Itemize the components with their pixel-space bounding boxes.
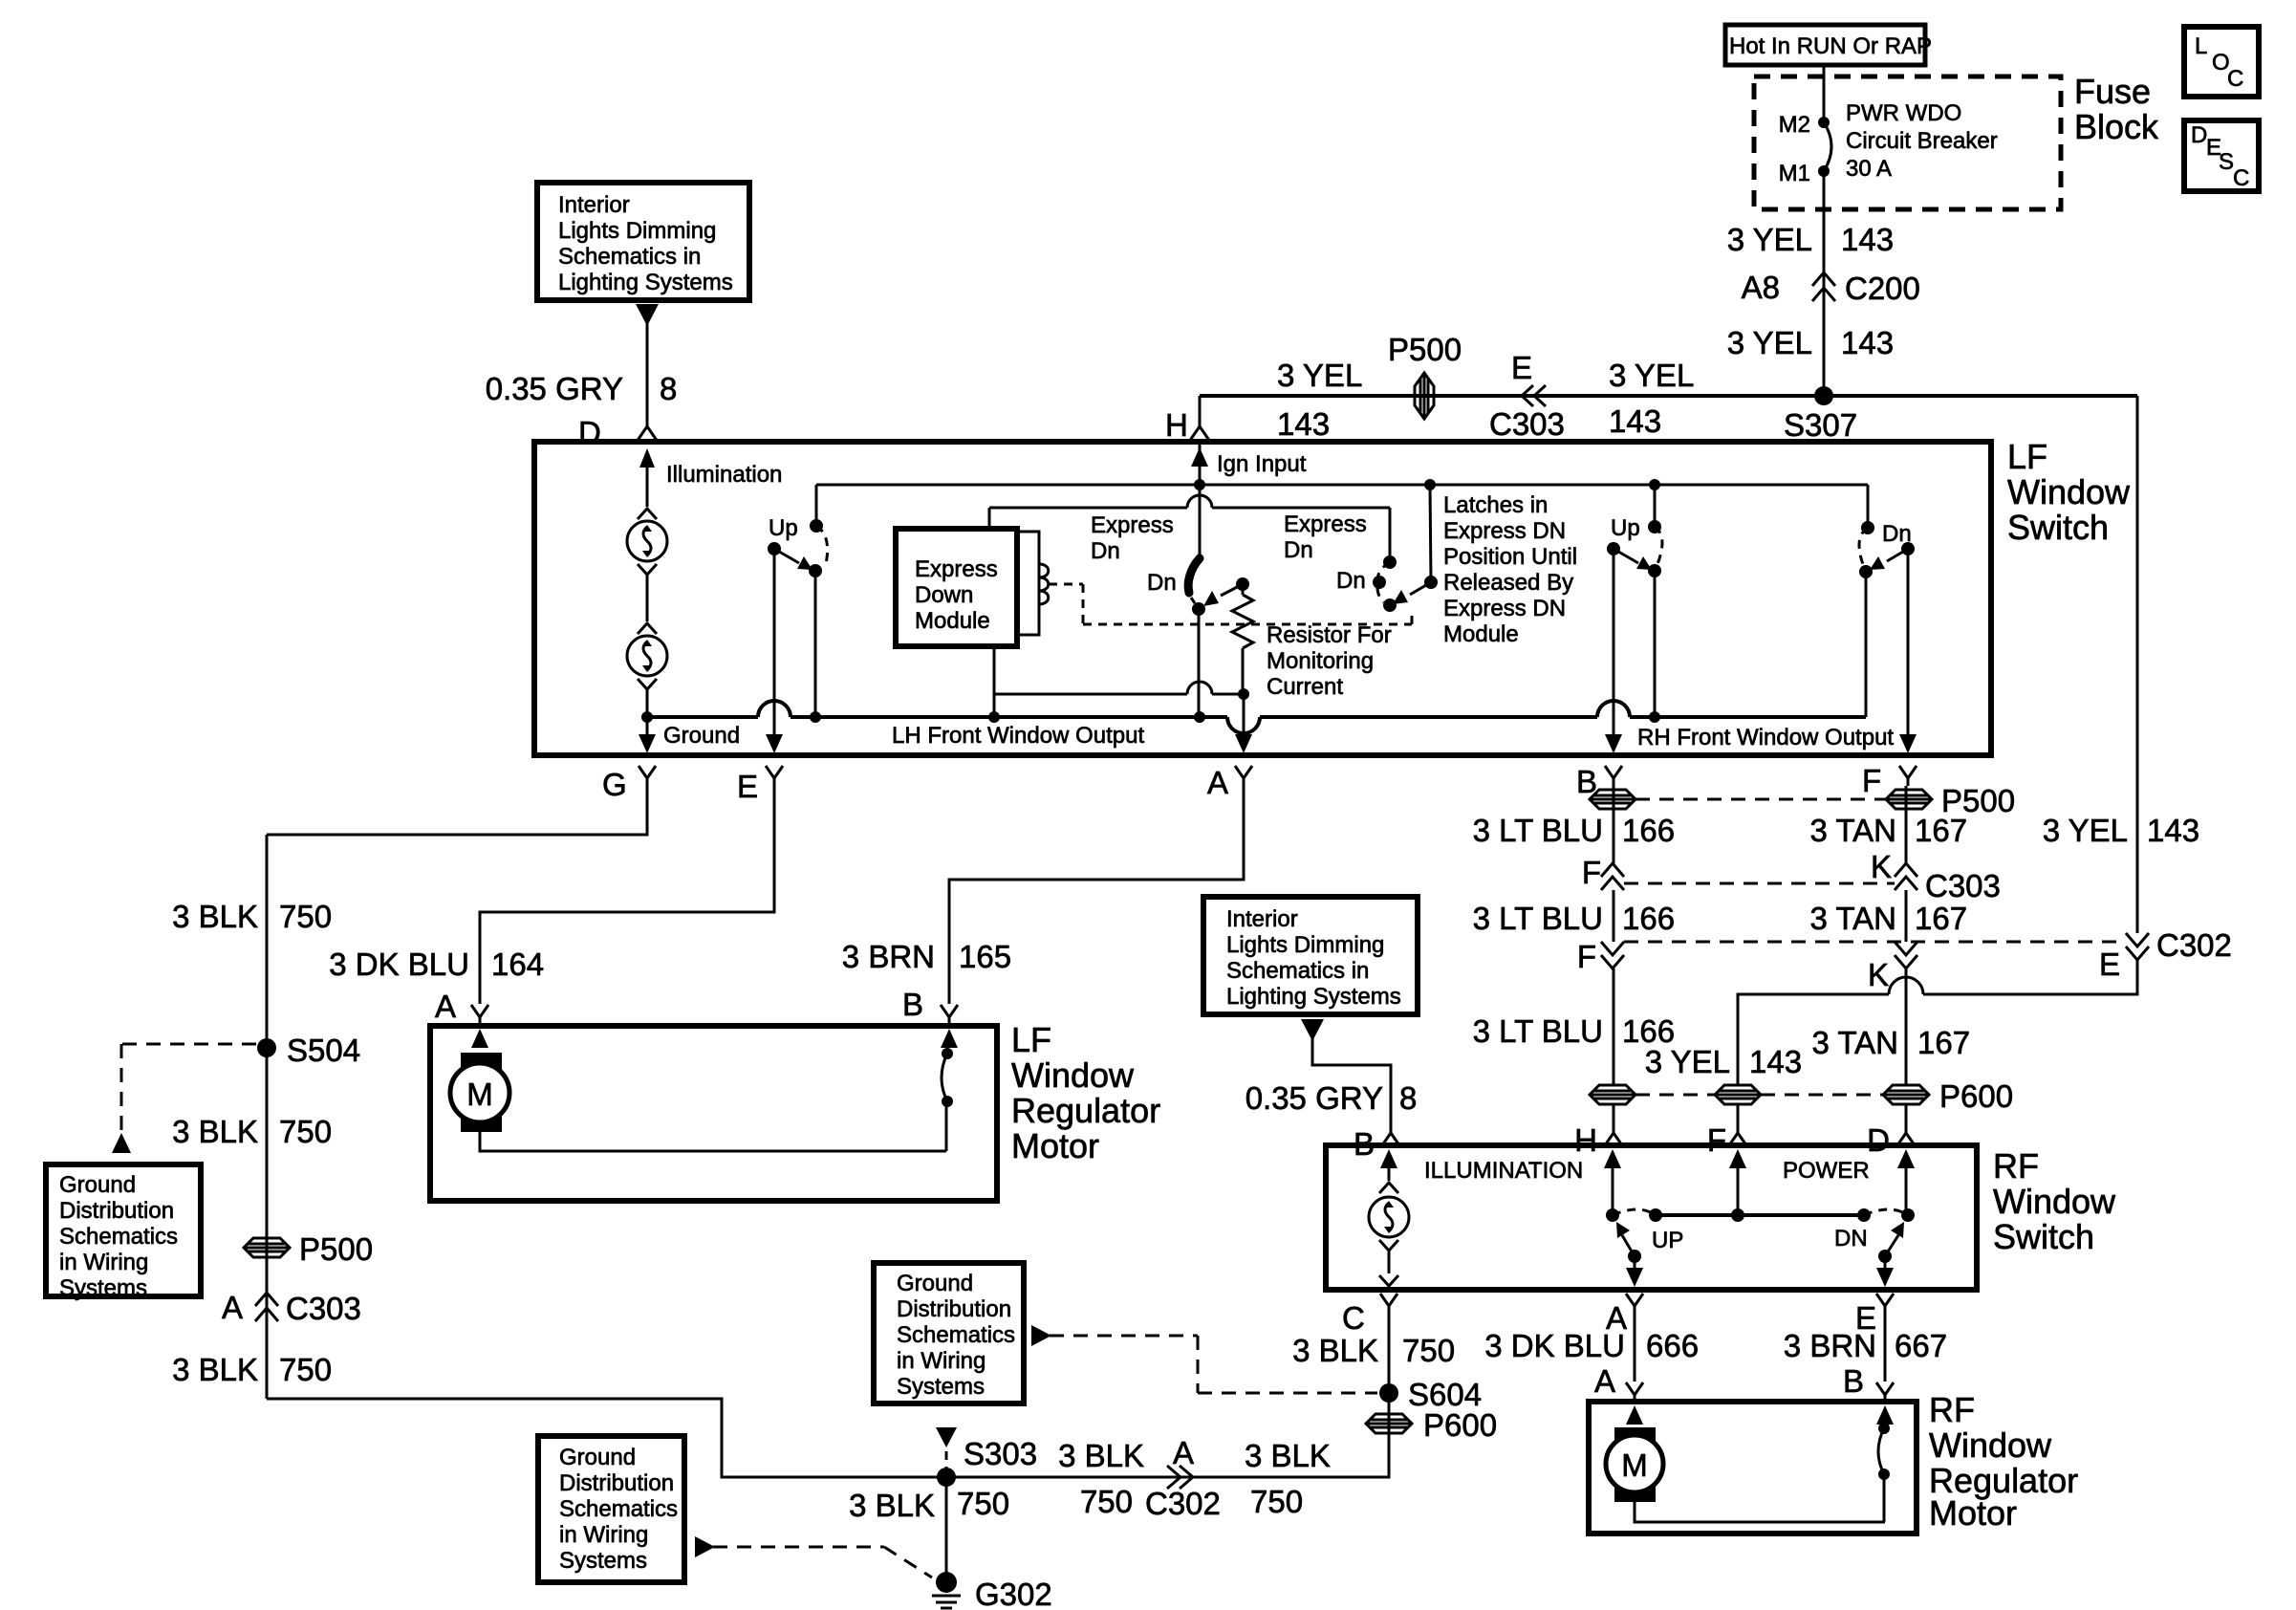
- dashed connector plane P500 row: [1635, 798, 1886, 801]
- svg-text:667: 667: [1895, 1328, 1947, 1363]
- module side tab: [1017, 532, 1039, 635]
- svg-text:143: 143: [1277, 406, 1330, 442]
- right express Dn switch: [1284, 485, 1438, 612]
- RF window switch box: [1326, 1145, 2116, 1290]
- wire: right 3 YEL 143 drop from S307 line: [2136, 396, 2139, 933]
- svg-text:3 BLK: 3 BLK: [1058, 1438, 1144, 1473]
- dashed express-down control line: [1049, 584, 1412, 624]
- svg-text:P600: P600: [1423, 1407, 1497, 1443]
- wire: C exit down to S604 (3 BLK 750): [1388, 1314, 1391, 1473]
- F (power) input arrow of RF switch: [1729, 1149, 1746, 1215]
- svg-text:F: F: [1577, 939, 1596, 974]
- svg-text:143: 143: [1841, 325, 1894, 360]
- svg-text:Hot In RUN Or RAP: Hot In RUN Or RAP: [1729, 33, 1932, 59]
- inline connector P500 (on feed wire): [1388, 332, 1462, 419]
- splice S307: [1784, 386, 1857, 443]
- illumination lamp 1: [627, 509, 667, 621]
- wire: breaker M1 down to S307: [1823, 171, 1826, 396]
- label box "Ground Distribution Schematics in Wiring Systems" (bottom left): [538, 1436, 684, 1582]
- label box "Ground Distribution Schematics in Wiring Systems" (left): [46, 1164, 201, 1301]
- svg-text:Window: Window: [1993, 1182, 2116, 1221]
- svg-text:Switch: Switch: [2007, 508, 2109, 547]
- svg-text:3 DK BLU: 3 DK BLU: [329, 946, 469, 982]
- svg-text:Express: Express: [1091, 512, 1174, 538]
- svg-text:A: A: [1173, 1435, 1194, 1470]
- wire: express switch Dn contact down to output bus: [1194, 609, 1205, 723]
- svg-text:Monitoring: Monitoring: [1267, 648, 1374, 674]
- svg-text:Latches in: Latches in: [1443, 492, 1548, 518]
- wire: P600 down/left to C302 and S303: [946, 1433, 1389, 1477]
- svg-text:Dn: Dn: [1091, 538, 1120, 564]
- svg-text:E: E: [737, 769, 758, 804]
- svg-text:K: K: [1868, 957, 1889, 992]
- dashed reference from S504 to ground distribution box: [112, 1044, 256, 1153]
- svg-text:Block: Block: [2074, 107, 2159, 146]
- svg-text:Resistor For: Resistor For: [1267, 622, 1392, 648]
- svg-text:3 YEL: 3 YEL: [1727, 325, 1812, 360]
- svg-text:167: 167: [1915, 813, 1967, 848]
- svg-text:167: 167: [1915, 901, 1967, 936]
- svg-text:Switch: Switch: [1993, 1217, 2094, 1256]
- connector C302 pin F (double chevron down): [1577, 939, 1624, 974]
- label box "Interior Lights Dimming Schematics in Lighting Systems" (top left): [537, 183, 749, 300]
- svg-text:H: H: [1165, 407, 1188, 443]
- LF window regulator motor box: [430, 1020, 1160, 1201]
- svg-text:Up: Up: [769, 515, 798, 541]
- svg-text:Ign Input: Ign Input: [1217, 451, 1307, 477]
- terminal B of RF switch: [1354, 1126, 1399, 1162]
- terminal B of RF motor: [1843, 1363, 1894, 1400]
- connector C200 pin A8 (double chevron up): [1742, 270, 1920, 306]
- svg-text:Window: Window: [1929, 1425, 2052, 1465]
- svg-text:750: 750: [1250, 1484, 1303, 1519]
- svg-text:3 BLK: 3 BLK: [172, 1114, 258, 1149]
- svg-text:DN: DN: [1834, 1226, 1868, 1251]
- terminal G of LF switch: [602, 766, 656, 802]
- svg-text:Lighting Systems: Lighting Systems: [558, 270, 733, 295]
- svg-text:Lights Dimming: Lights Dimming: [1226, 932, 1384, 958]
- svg-text:750: 750: [957, 1486, 1009, 1521]
- wire: right Dn common down to F exit: [1899, 549, 1917, 753]
- svg-text:S: S: [2219, 149, 2234, 175]
- svg-text:3 YEL: 3 YEL: [1727, 222, 1812, 257]
- svg-text:A8: A8: [1742, 270, 1780, 305]
- svg-text:3 BRN: 3 BRN: [1784, 1328, 1876, 1363]
- inline connector P500 (left rail): [244, 1231, 373, 1267]
- svg-text:Express DN: Express DN: [1443, 596, 1566, 621]
- LF window switch box: [534, 437, 2131, 755]
- svg-text:Schematics in: Schematics in: [558, 244, 701, 270]
- inline connector P500 pin B (LT BLU column): [1590, 790, 1635, 809]
- terminal A of LF switch: [1207, 765, 1252, 800]
- switch position arrow (resistor top to Dn contact): [1203, 584, 1243, 606]
- arrow from interior lights box (lower): [1301, 1019, 1324, 1041]
- label box "Hot In RUN Or RAP": [1725, 25, 1932, 65]
- svg-text:Illumination: Illumination: [666, 462, 782, 488]
- wire: A output to LF motor B (3 BRN 165): [949, 786, 1244, 1004]
- wire: dimming feed to D: [646, 321, 649, 426]
- svg-text:3 BLK: 3 BLK: [1292, 1333, 1378, 1368]
- svg-text:Systems: Systems: [897, 1374, 985, 1400]
- wire: G ground drop to left rail: [267, 786, 647, 835]
- svg-text:143: 143: [2147, 813, 2199, 848]
- svg-text:Schematics: Schematics: [559, 1496, 678, 1522]
- terminal D of LF switch: [578, 415, 658, 450]
- svg-text:3 BLK: 3 BLK: [172, 1352, 258, 1387]
- svg-text:C303: C303: [286, 1291, 361, 1326]
- dashed connector plane C302 row: [1624, 941, 2126, 944]
- module coil: [1039, 564, 1049, 604]
- svg-text:143: 143: [1749, 1044, 1802, 1079]
- terminal A of RF motor: [1594, 1363, 1643, 1400]
- svg-text:S307: S307: [1784, 407, 1857, 443]
- svg-text:A: A: [435, 989, 456, 1024]
- svg-text:Express: Express: [1284, 511, 1367, 537]
- svg-text:750: 750: [279, 1114, 332, 1149]
- wire: module top riser to switch rail: [989, 495, 1390, 555]
- svg-text:Ground: Ground: [559, 1445, 636, 1470]
- svg-text:LH Front Window Output: LH Front Window Output: [892, 723, 1144, 749]
- svg-text:3 TAN: 3 TAN: [1810, 901, 1896, 936]
- svg-text:Ground: Ground: [59, 1172, 136, 1198]
- Latches in Express DN text block: [1443, 492, 1577, 647]
- svg-text:3 DK BLU: 3 DK BLU: [1484, 1328, 1625, 1363]
- svg-text:Dn: Dn: [1336, 568, 1366, 594]
- svg-text:750: 750: [1080, 1484, 1133, 1519]
- connector C302 pin E (double chevron down) + label: [2099, 927, 2232, 982]
- svg-text:Window: Window: [2007, 472, 2131, 511]
- svg-text:RF: RF: [1929, 1390, 1975, 1429]
- connector C303 pin E (double chevron left, on feed wire): [1489, 350, 1565, 442]
- inline connector P600 (C column) + label: [1366, 1407, 1497, 1443]
- ground G302: [932, 1572, 1052, 1610]
- svg-text:8: 8: [1399, 1080, 1417, 1116]
- svg-text:POWER: POWER: [1783, 1158, 1870, 1184]
- connector C303 pin F (double chevron up): [1582, 855, 1624, 890]
- terminal H of LF switch: [1165, 407, 1210, 443]
- svg-text:A: A: [1594, 1363, 1615, 1399]
- svg-text:Lighting Systems: Lighting Systems: [1226, 984, 1401, 1010]
- svg-text:C302: C302: [1145, 1486, 1221, 1521]
- terminal F of LF switch: [1862, 763, 1917, 798]
- dashed connector plane C303 row: [1624, 882, 1895, 885]
- circuit breaker PWR WDO 30A (M2-M1): [1779, 100, 1998, 186]
- RF DN switch: [1834, 1208, 1915, 1287]
- arrow from interior lights box: [636, 304, 659, 326]
- svg-text:D: D: [1867, 1122, 1890, 1158]
- illumination feed arrow (inside box, below D): [639, 448, 782, 507]
- RF window regulator motor box: [1589, 1390, 2078, 1534]
- terminal C of RF switch: [1342, 1294, 1397, 1336]
- svg-text:3 TAN: 3 TAN: [1810, 813, 1896, 848]
- connector C302 pin K (double chevron down): [1868, 942, 1917, 992]
- terminal E of LF switch: [737, 766, 783, 804]
- wire: dimming feed to RF switch B: [1312, 1035, 1391, 1133]
- LF motor M symbol: [450, 1029, 946, 1151]
- svg-text:Schematics: Schematics: [897, 1322, 1015, 1348]
- wires: P600 to RF switch terminals: [1613, 1104, 1615, 1133]
- svg-text:Module: Module: [915, 608, 990, 634]
- connector C303 pin K (double chevron up) + label: [1871, 849, 2001, 903]
- svg-text:Module: Module: [1443, 621, 1519, 647]
- svg-text:ILLUMINATION: ILLUMINATION: [1424, 1158, 1583, 1184]
- wire: YEL from C302 down, across (hump over TAN), down to P600: [1738, 960, 2137, 1085]
- svg-text:UP: UP: [1652, 1228, 1683, 1253]
- fuse block F1 (dashed outline): [1754, 72, 2159, 209]
- svg-text:Distribution: Distribution: [897, 1296, 1011, 1322]
- terminal E of RF switch: [1855, 1294, 1894, 1336]
- svg-text:C303: C303: [1925, 868, 2001, 903]
- wire: C303 to C302 (LT BLU): [1613, 890, 1615, 942]
- svg-text:Express: Express: [915, 556, 998, 582]
- Express Down Module box: [896, 529, 1017, 646]
- svg-text:Interior: Interior: [1226, 906, 1298, 932]
- svg-text:Systems: Systems: [59, 1275, 147, 1301]
- splice S604: [1379, 1377, 1482, 1412]
- svg-text:Ground: Ground: [663, 723, 740, 749]
- main ignition feed wire (y=414) from H riser to right edge: [1200, 394, 2137, 398]
- RF motor M symbol: [1606, 1405, 1885, 1522]
- connector C303 pin A (left rail, double chevron up): [222, 1290, 361, 1326]
- svg-text:750: 750: [1402, 1333, 1455, 1368]
- svg-text:166: 166: [1622, 813, 1675, 848]
- inner top wire (switch feed rail y=507): [816, 479, 1868, 521]
- terminal D of RF switch: [1867, 1122, 1915, 1158]
- svg-text:3 BLK: 3 BLK: [849, 1488, 935, 1523]
- right Up switch of LF window switch: [1607, 485, 1662, 723]
- svg-text:167: 167: [1917, 1025, 1970, 1060]
- wire: RF E output to motor B (3 BRN 667): [1884, 1314, 1887, 1382]
- wire: Hot feed into fuse block: [1823, 65, 1826, 122]
- svg-text:in Wiring: in Wiring: [559, 1522, 648, 1548]
- label box "Interior Lights Dimming ..." (lower middle): [1203, 897, 1418, 1014]
- terminal A of LF motor: [435, 989, 488, 1024]
- svg-text:Regulator: Regulator: [1011, 1091, 1160, 1130]
- H riser + Ign Input arrow: [1191, 396, 1307, 560]
- svg-text:3 BRN: 3 BRN: [842, 939, 935, 974]
- svg-text:165: 165: [959, 939, 1011, 974]
- svg-text:F: F: [1582, 855, 1601, 890]
- terminal H of RF switch: [1574, 1122, 1622, 1158]
- label box "Ground Distribution Schematics in Wiring Systems" (middle): [874, 1263, 1024, 1403]
- svg-text:K: K: [1871, 849, 1892, 884]
- svg-text:M: M: [1621, 1447, 1648, 1483]
- svg-text:143: 143: [1841, 222, 1894, 257]
- svg-text:164: 164: [491, 946, 544, 982]
- svg-text:3 TAN: 3 TAN: [1812, 1025, 1898, 1060]
- inline connector P500 pin F (TAN column) + label: [1886, 783, 2015, 818]
- wire: module output down to LH output bus: [988, 646, 1000, 723]
- terminal F of RF switch: [1707, 1122, 1746, 1158]
- svg-text:A: A: [1207, 765, 1228, 800]
- svg-text:A: A: [222, 1290, 243, 1325]
- svg-text:C: C: [2233, 165, 2249, 191]
- svg-text:0.35 GRY: 0.35 GRY: [486, 371, 623, 406]
- H input arrow of RF switch: [1604, 1149, 1621, 1215]
- svg-text:Dn: Dn: [1147, 570, 1177, 596]
- illumination lamp 2: [627, 623, 667, 717]
- svg-text:S504: S504: [287, 1033, 360, 1068]
- terminal B of LF motor: [902, 987, 958, 1024]
- svg-text:750: 750: [279, 899, 332, 934]
- inline connector P600 pin H: [1590, 1085, 1635, 1104]
- svg-text:Schematics in: Schematics in: [1226, 958, 1369, 984]
- wire: resistor junction down to A exit (bulge in output bus): [1235, 694, 1252, 753]
- svg-text:Distribution: Distribution: [559, 1470, 674, 1496]
- svg-text:LF: LF: [1011, 1020, 1051, 1059]
- splice S504: [257, 1033, 360, 1068]
- svg-text:Ground: Ground: [897, 1271, 973, 1296]
- svg-text:S303: S303: [964, 1436, 1037, 1471]
- svg-text:RH Front Window Output: RH Front Window Output: [1637, 725, 1894, 751]
- svg-text:3 YEL: 3 YEL: [1645, 1044, 1730, 1079]
- svg-text:F: F: [1862, 763, 1881, 798]
- svg-text:C200: C200: [1845, 271, 1920, 306]
- wire: right Up common down to B exit: [1605, 549, 1622, 753]
- svg-text:0.35 GRY: 0.35 GRY: [1245, 1080, 1383, 1116]
- wire: left ground rail 3 BLK 750: [266, 835, 269, 1399]
- svg-text:Fuse: Fuse: [2074, 72, 2151, 111]
- D input arrow of RF switch: [1897, 1149, 1915, 1215]
- wire: C303 to C302 (TAN): [1905, 890, 1908, 942]
- svg-text:Interior: Interior: [558, 192, 630, 218]
- dashed reference from middle box to S604: [1031, 1325, 1377, 1393]
- svg-text:D: D: [578, 415, 601, 450]
- svg-text:3 LT BLU: 3 LT BLU: [1473, 813, 1603, 848]
- wire: B exit to C303 (3 LT BLU 166): [1613, 786, 1615, 863]
- wire: module bottom link to resistor bottom (hump over riser): [994, 682, 1249, 700]
- svg-text:E: E: [2099, 946, 2120, 982]
- svg-text:F: F: [1707, 1122, 1726, 1158]
- wire: RF A output to motor A (3 DK BLU 666): [1634, 1314, 1636, 1382]
- right Dn switch of LF window switch: [1859, 521, 1915, 578]
- svg-text:Released By: Released By: [1443, 570, 1573, 596]
- svg-text:B: B: [902, 987, 923, 1022]
- svg-text:PWR WDO: PWR WDO: [1846, 100, 1961, 126]
- RF UP switch: [1606, 1208, 1683, 1287]
- svg-text:3 YEL: 3 YEL: [1277, 358, 1362, 393]
- express-down switch flipper (bold) on H riser: [1188, 558, 1205, 616]
- svg-text:M1: M1: [1779, 161, 1810, 186]
- svg-text:P600: P600: [1939, 1078, 2013, 1114]
- svg-text:8: 8: [660, 371, 677, 406]
- svg-text:H: H: [1574, 1122, 1597, 1158]
- svg-text:Systems: Systems: [559, 1548, 647, 1574]
- splice S303: [937, 1436, 1037, 1487]
- svg-text:G302: G302: [975, 1577, 1052, 1610]
- wire: LT BLU from C302 to P600: [1613, 968, 1615, 1085]
- svg-text:Distribution: Distribution: [59, 1198, 174, 1224]
- svg-text:B: B: [1843, 1363, 1864, 1399]
- wire: left rail to S303: [267, 1399, 946, 1477]
- dashed connector plane P600 row: [1635, 1094, 1715, 1097]
- LF motor internal switch (B side): [941, 1029, 958, 1151]
- inline connector P600 pin F: [1715, 1085, 1761, 1104]
- svg-text:C: C: [2227, 66, 2243, 92]
- terminal A of RF switch: [1606, 1294, 1643, 1336]
- svg-text:RF: RF: [1993, 1146, 2039, 1186]
- Ground exit arrow + label (to G): [639, 717, 740, 753]
- RF motor internal switch (B side): [1876, 1405, 1894, 1522]
- svg-text:3 YEL: 3 YEL: [2043, 813, 2128, 848]
- terminal B of LF switch: [1576, 764, 1622, 799]
- svg-text:Dn: Dn: [1284, 537, 1313, 563]
- svg-text:Schematics: Schematics: [59, 1224, 178, 1250]
- svg-text:P500: P500: [299, 1231, 373, 1267]
- svg-text:Down: Down: [915, 582, 973, 608]
- svg-text:750: 750: [279, 1352, 332, 1387]
- svg-text:143: 143: [1609, 403, 1661, 439]
- svg-text:Up: Up: [1611, 515, 1640, 541]
- box "LOC": [2184, 27, 2259, 97]
- wire: TAN from C302 to P600: [1905, 968, 1908, 1085]
- wire: S303 down to G302 (3 BLK 750): [945, 1477, 948, 1577]
- svg-text:C302: C302: [2156, 927, 2232, 963]
- RF switch feed bar: [1649, 1208, 1871, 1222]
- svg-text:3 BLK: 3 BLK: [1245, 1438, 1331, 1473]
- svg-text:E: E: [1511, 350, 1532, 385]
- connector C302 pin A (double chevron right) + label: [1145, 1435, 1221, 1521]
- svg-text:Position Until: Position Until: [1443, 544, 1577, 570]
- svg-text:Motor: Motor: [1929, 1493, 2017, 1533]
- svg-text:Express DN: Express DN: [1443, 518, 1566, 544]
- left Up switch of LF window switch: [768, 485, 828, 723]
- resistor for monitoring current: [1232, 577, 1392, 700]
- svg-text:D: D: [2191, 122, 2207, 148]
- box "DESC": [2184, 120, 2259, 191]
- ground bus / output bus inside LF switch: [641, 572, 1866, 733]
- wire: Up switch common down to E exit (passes ground bus hump): [766, 549, 783, 753]
- svg-text:166: 166: [1622, 901, 1675, 936]
- svg-text:3 YEL: 3 YEL: [1609, 358, 1694, 393]
- svg-text:Current: Current: [1267, 674, 1343, 700]
- svg-text:Motor: Motor: [1011, 1126, 1099, 1165]
- svg-text:Lights Dimming: Lights Dimming: [558, 218, 716, 244]
- svg-text:L: L: [2195, 33, 2207, 59]
- label box "Ground Distribution Schematics in Wiring Systems" (upper middle) duplicate arrow: triangle above S303: [936, 1427, 957, 1469]
- svg-text:3 LT BLU: 3 LT BLU: [1473, 1013, 1603, 1049]
- inline connector P600 pin D + label: [1883, 1078, 2013, 1114]
- svg-text:M: M: [466, 1077, 493, 1112]
- svg-text:C: C: [1342, 1300, 1365, 1336]
- wire: E output to LF motor A (3 DK BLU 164): [480, 786, 774, 1004]
- RF illumination lamp: [1369, 1149, 1583, 1286]
- svg-text:P500: P500: [1388, 332, 1462, 367]
- svg-text:3 LT BLU: 3 LT BLU: [1473, 901, 1603, 936]
- svg-text:666: 666: [1646, 1328, 1699, 1363]
- svg-text:in Wiring: in Wiring: [897, 1348, 986, 1374]
- svg-text:LF: LF: [2007, 437, 2047, 476]
- svg-text:Circuit Breaker: Circuit Breaker: [1846, 128, 1998, 154]
- svg-text:Window: Window: [1011, 1055, 1135, 1095]
- dashed reference from bottom-left box to G302: [695, 1536, 932, 1577]
- svg-text:M2: M2: [1779, 112, 1810, 138]
- svg-text:C303: C303: [1489, 406, 1565, 442]
- svg-text:30 A: 30 A: [1846, 156, 1892, 182]
- svg-text:G: G: [602, 767, 627, 802]
- svg-text:3 BLK: 3 BLK: [172, 899, 258, 934]
- svg-text:in Wiring: in Wiring: [59, 1250, 148, 1275]
- wire: F exit to C303 (TAN): [1905, 786, 1908, 863]
